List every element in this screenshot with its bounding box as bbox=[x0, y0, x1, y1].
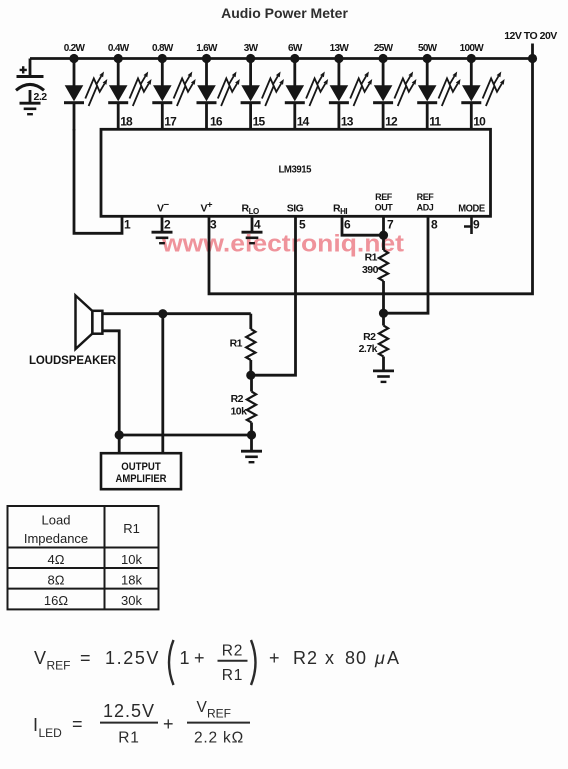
svg-text:Load: Load bbox=[42, 513, 71, 528]
labels top pin numbers 18..10 bbox=[120, 115, 486, 129]
svg-text:REF: REF bbox=[47, 659, 71, 673]
svg-text:=: = bbox=[72, 714, 84, 734]
svg-text:50W: 50W bbox=[418, 43, 438, 54]
svg-text:8Ω: 8Ω bbox=[48, 573, 65, 588]
svg-text:390: 390 bbox=[362, 264, 379, 276]
svg-text:6W: 6W bbox=[288, 43, 303, 54]
wire bottom horizontal to R2 bbox=[119, 434, 251, 437]
svg-text:5: 5 bbox=[299, 218, 306, 232]
svg-text:RHI: RHI bbox=[333, 203, 347, 217]
svg-text:13: 13 bbox=[341, 115, 354, 129]
svg-text:0.8W: 0.8W bbox=[152, 43, 174, 54]
svg-text:2: 2 bbox=[164, 218, 171, 232]
svg-text:x: x bbox=[325, 648, 335, 668]
svg-text:+: + bbox=[269, 648, 281, 668]
formula ILED bbox=[33, 699, 250, 747]
LED D7 13W bbox=[329, 57, 372, 131]
svg-text:10k: 10k bbox=[121, 552, 142, 567]
svg-text:REF: REF bbox=[207, 707, 231, 721]
op-amp U1 LM3915 IC body bbox=[101, 129, 491, 216]
svg-text:R2: R2 bbox=[231, 393, 244, 405]
svg-text:V: V bbox=[197, 699, 208, 716]
svg-text:MODE: MODE bbox=[458, 203, 485, 215]
svg-text:15: 15 bbox=[253, 115, 266, 129]
svg-text:μ: μ bbox=[374, 648, 386, 668]
svg-text:REF: REF bbox=[417, 192, 435, 202]
table load impedance vs R1 bbox=[8, 506, 159, 609]
node pin6/7 junction bbox=[379, 231, 388, 240]
svg-text:25W: 25W bbox=[374, 43, 394, 54]
svg-text:10k: 10k bbox=[230, 406, 247, 418]
wire pin 7 REF OUT bbox=[382, 216, 385, 250]
wire pin 5 SIG to divider bbox=[251, 216, 296, 375]
svg-text:12: 12 bbox=[385, 115, 398, 129]
svg-text:OUTPUT: OUTPUT bbox=[121, 461, 161, 473]
svg-text:11: 11 bbox=[429, 115, 441, 129]
wire pin 9 MODE stub bbox=[464, 216, 472, 234]
svg-text:3W: 3W bbox=[244, 43, 259, 54]
svg-text:12.5V: 12.5V bbox=[103, 701, 155, 721]
LED D3 0.8W bbox=[152, 57, 195, 131]
svg-text:4Ω: 4Ω bbox=[48, 552, 65, 567]
LED D2 0.4W bbox=[108, 57, 151, 131]
resistor R1 (divider) bbox=[249, 314, 252, 329]
svg-text:80: 80 bbox=[345, 648, 367, 668]
ground (pin 2) bbox=[152, 232, 173, 243]
svg-text:10: 10 bbox=[473, 115, 486, 129]
ground (capacitor) bbox=[20, 103, 41, 114]
resistor R2 10k bbox=[250, 375, 253, 392]
output amplifier box bbox=[101, 453, 181, 489]
svg-text:R1: R1 bbox=[118, 730, 139, 747]
svg-text:1: 1 bbox=[124, 218, 131, 232]
svg-text:2.2 kΩ: 2.2 kΩ bbox=[194, 730, 244, 747]
node divider junction bbox=[246, 371, 255, 380]
wire pin 8 REF ADJ bbox=[384, 216, 429, 313]
node LED rail junctions bbox=[69, 54, 476, 63]
labels IC bottom pin names bbox=[157, 192, 485, 216]
capacitor C1 2.2 bbox=[16, 59, 47, 104]
svg-text:R1: R1 bbox=[365, 252, 378, 264]
svg-text:9: 9 bbox=[473, 218, 480, 232]
svg-text:30k: 30k bbox=[121, 593, 142, 608]
svg-text:V: V bbox=[34, 648, 47, 668]
labels LED power steps bbox=[64, 43, 484, 54]
svg-text:REF: REF bbox=[375, 192, 393, 202]
node R2 bottom junction bbox=[247, 430, 256, 439]
wire right rail / V+ return bbox=[209, 44, 533, 294]
svg-text:7: 7 bbox=[387, 218, 394, 232]
svg-text:16Ω: 16Ω bbox=[44, 593, 68, 608]
svg-text:R1: R1 bbox=[222, 667, 243, 684]
svg-text:LED: LED bbox=[39, 726, 63, 740]
ground (R2 10k) bbox=[241, 451, 262, 462]
svg-text:R2: R2 bbox=[293, 648, 318, 668]
svg-text:+: + bbox=[163, 714, 175, 734]
svg-text:1.6W: 1.6W bbox=[196, 43, 218, 54]
svg-text:LM3915: LM3915 bbox=[279, 164, 312, 176]
svg-text:SIG: SIG bbox=[287, 203, 304, 215]
svg-text:RLO: RLO bbox=[242, 203, 259, 217]
LED D5 3W bbox=[241, 57, 284, 131]
svg-text:V−: V− bbox=[157, 200, 170, 215]
wire speaker top to R1 bbox=[102, 312, 250, 315]
LED D8 25W bbox=[373, 57, 416, 131]
svg-text:AMPLIFIER: AMPLIFIER bbox=[116, 473, 167, 485]
svg-text:8: 8 bbox=[431, 218, 438, 232]
wire pin 1 hook to LED D1 bbox=[74, 129, 122, 233]
LED D6 6W bbox=[285, 57, 328, 131]
svg-text:13W: 13W bbox=[330, 43, 350, 54]
svg-text:16: 16 bbox=[210, 115, 223, 129]
LED D1 0.2W bbox=[64, 57, 107, 131]
wire top supply rail bbox=[30, 57, 533, 60]
svg-text:R1: R1 bbox=[123, 521, 140, 536]
svg-text:0.4W: 0.4W bbox=[108, 43, 130, 54]
svg-text:100W: 100W bbox=[460, 43, 485, 54]
svg-text:1: 1 bbox=[180, 648, 191, 668]
svg-text:4: 4 bbox=[254, 218, 261, 232]
svg-text:OUT: OUT bbox=[375, 203, 394, 213]
svg-text:14: 14 bbox=[297, 115, 310, 129]
labels IC bottom pin numbers bbox=[124, 218, 480, 232]
LED D9 50W bbox=[417, 57, 460, 131]
svg-text:LOUDSPEAKER: LOUDSPEAKER bbox=[29, 355, 117, 367]
wire pin 4 stub bbox=[251, 216, 254, 232]
svg-text:2.7k: 2.7k bbox=[359, 343, 378, 355]
node speaker/amp junction bbox=[158, 309, 167, 318]
wire speaker bottom to amp bbox=[102, 331, 119, 453]
node ref divider junction bbox=[379, 309, 388, 318]
wire amp mid vertical bbox=[161, 314, 164, 454]
wire pin 6 to pin 7 bbox=[342, 216, 384, 235]
node amp/R2 bottom junction bbox=[115, 430, 124, 439]
svg-text:2.2: 2.2 bbox=[34, 91, 48, 103]
svg-text:1.25V: 1.25V bbox=[105, 648, 160, 668]
svg-text:12V TO 20V: 12V TO 20V bbox=[504, 30, 557, 42]
svg-text:+: + bbox=[194, 648, 206, 668]
resistor R1 390 bbox=[379, 250, 388, 281]
svg-text:18: 18 bbox=[120, 115, 133, 129]
svg-text:3: 3 bbox=[210, 218, 217, 232]
svg-text:17: 17 bbox=[164, 115, 177, 129]
LED D4 1.6W bbox=[197, 57, 240, 131]
loudspeaker LS1 bbox=[29, 296, 117, 368]
svg-text:R2: R2 bbox=[222, 643, 243, 660]
node 12V supply junction bbox=[528, 54, 537, 63]
svg-text:V+: V+ bbox=[201, 200, 214, 215]
formula VREF bbox=[34, 640, 400, 685]
LED D10 100W bbox=[461, 57, 504, 131]
svg-text:0.2W: 0.2W bbox=[64, 43, 86, 54]
svg-text:Impedance: Impedance bbox=[24, 531, 88, 546]
svg-text:R1: R1 bbox=[230, 338, 243, 350]
svg-text:=: = bbox=[80, 648, 92, 668]
svg-text:ADJ: ADJ bbox=[417, 203, 434, 213]
ground (pin 4) bbox=[242, 232, 263, 243]
svg-text:Audio Power Meter: Audio Power Meter bbox=[221, 5, 348, 21]
svg-text:A: A bbox=[387, 648, 400, 668]
resistor R2 2.7k bbox=[382, 313, 385, 326]
svg-text:R2: R2 bbox=[363, 331, 376, 343]
svg-text:6: 6 bbox=[344, 218, 351, 232]
ground (R2 2.7k) bbox=[373, 371, 394, 382]
wire pin 2 stub bbox=[161, 216, 164, 232]
svg-text:18k: 18k bbox=[121, 573, 142, 588]
